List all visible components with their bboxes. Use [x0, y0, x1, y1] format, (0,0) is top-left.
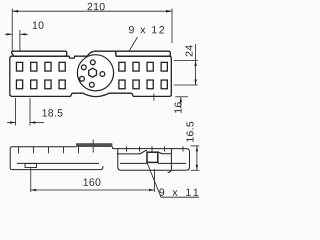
dimension 160 arrows [31, 189, 155, 191]
hex hole [89, 68, 97, 77]
tick on bottom edge [153, 94, 155, 101]
small hole bottom [89, 82, 94, 87]
svg-text:10: 10 [32, 20, 44, 32]
dimension 160 lines [31, 168, 155, 193]
center long tick [92, 140, 94, 153]
square holes row1 right [119, 62, 167, 71]
svg-text:9 x 12: 9 x 12 [128, 24, 166, 36]
dimension 16.5 arrows [196, 146, 198, 170]
dimension 16.5 lines [191, 146, 200, 170]
svg-text:16: 16 [173, 101, 185, 113]
dimension 24 lines [174, 44, 198, 85]
dimension 210 line [12, 9, 172, 51]
square holes row2 right [119, 80, 167, 89]
dimension 10 arrows [7, 33, 26, 35]
small hole upper-left [81, 65, 86, 70]
svg-text:160: 160 [83, 177, 101, 189]
flange bar left segment [12, 51, 67, 56]
left rail ticks [19, 147, 79, 153]
right rail ticks [127, 146, 184, 151]
dimension 210 arrows [12, 10, 172, 13]
side view left rail [10, 147, 103, 170]
small hole right [100, 72, 105, 77]
dimension 18.5 lines [7, 98, 44, 126]
dimension 18.5 arrows [10, 121, 35, 123]
square hole 9x11 in side view [147, 152, 158, 162]
plate section gray bar [76, 143, 112, 147]
svg-text:18.5: 18.5 [42, 107, 64, 119]
side view right rail [112, 147, 189, 173]
small hole top [90, 60, 95, 65]
square holes row2 left [16, 80, 65, 89]
dimension 10 line [5, 30, 28, 61]
svg-text:24: 24 [183, 45, 195, 57]
leader 9x12 [128, 37, 138, 53]
dimension 24 arrows [194, 61, 196, 86]
circle boss [77, 55, 113, 91]
top view plate outline [10, 51, 172, 96]
small hole lower-left [80, 76, 85, 81]
square holes row1 left [16, 62, 65, 71]
dimension 16 lines [175, 97, 188, 108]
leader 9x11 [147, 163, 199, 197]
svg-text:16.5: 16.5 [185, 121, 197, 143]
left rail tab [25, 163, 37, 167]
flange bar right segment [116, 51, 171, 56]
dimension 16 arrow [180, 97, 182, 103]
